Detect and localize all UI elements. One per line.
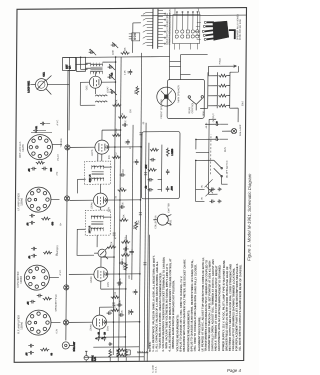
resistor network bottom-left of schematic	[116, 349, 130, 357]
svg-text:12BA6: 12BA6	[19, 197, 23, 205]
wire: B- bus	[144, 123, 146, 361]
wire: stage drops V1	[51, 307, 140, 338]
label V3 socket	[16, 193, 23, 211]
wire: output section	[200, 66, 239, 131]
wire: mid rail	[147, 143, 149, 362]
svg-text:C1A: C1A	[42, 72, 45, 77]
wire: stage drops V2	[49, 257, 140, 290]
svg-text:1 MEG: 1 MEG	[172, 148, 174, 155]
jack J1 box	[63, 57, 76, 70]
capacitor C20 electrolytic	[101, 331, 107, 341]
capacitor group under socket S4	[29, 161, 53, 172]
svg-text:LOOP ANT.: LOOP ANT.	[27, 81, 30, 93]
svg-text:Figure 1. Model M-1961, Sch: Figure 1. Model M-1961, Schematic Diagra…	[246, 173, 252, 261]
transistor jack labels	[155, 203, 172, 229]
wire: AVC bus	[113, 57, 115, 355]
svg-text:6.3V: 6.3V	[56, 328, 58, 333]
svg-text:12BA6: 12BA6	[19, 321, 23, 329]
svg-text:BALLAST: BALLAST	[73, 341, 76, 351]
svg-text:ADJUSTMENTS UNTIL NO FURTHER I: ADJUSTMENTS UNTIL NO FURTHER IMPROVEMENT…	[217, 264, 222, 351]
svg-text:50L6: 50L6	[242, 100, 244, 106]
terminal strip TS1	[129, 33, 140, 41]
wire: heater rail	[66, 70, 76, 340]
jack J2	[153, 214, 171, 225]
tube V1	[92, 315, 106, 329]
resistor R6	[112, 152, 121, 159]
label power area values	[201, 58, 221, 201]
label heater rail	[55, 153, 59, 333]
svg-text:BASE: BASE	[169, 219, 172, 225]
resistor R16	[134, 221, 138, 230]
capacitor C11	[130, 249, 134, 255]
speaker LS2 jack	[188, 96, 204, 111]
svg-text:DIAL LAMP: DIAL LAMP	[239, 124, 242, 136]
svg-text:15K: 15K	[125, 47, 127, 51]
wire: screen bus	[124, 235, 127, 355]
transformer T1 1st IF	[85, 210, 110, 235]
svg-text:TO GRID: TO GRID	[61, 138, 63, 148]
resistor R18 ballast on rail	[62, 341, 76, 351]
svg-text:10K: 10K	[123, 214, 125, 218]
wire: stage drops V3	[51, 184, 141, 211]
svg-text:12BA6: 12BA6	[89, 324, 92, 332]
switch SW3 linkage	[204, 134, 213, 196]
label switch S1	[166, 9, 172, 45]
capacitor C30 electrolytic	[214, 136, 220, 141]
resistor R15	[123, 262, 127, 271]
capacitor C9	[122, 120, 128, 127]
label converter	[106, 86, 109, 93]
svg-text:U.S.A.: U.S.A.	[155, 366, 158, 373]
capacitor C10	[125, 139, 129, 145]
wire: switch rail	[133, 15, 246, 53]
svg-text:FIELD: FIELD	[220, 58, 222, 65]
svg-text:150V: 150V	[203, 111, 205, 117]
wire: oscillator connections	[80, 57, 115, 105]
wire: power rail	[196, 119, 219, 194]
label V4 socket	[18, 141, 25, 158]
wire: speaker plug leads	[84, 347, 148, 357]
capacitor ticks on buses	[112, 133, 147, 305]
svg-text:C-1049: C-1049	[153, 364, 155, 372]
label bus B	[60, 222, 62, 225]
plug P2 ac plug	[84, 351, 97, 362]
label AVC2	[56, 119, 59, 126]
svg-text:12AT6: 12AT6	[21, 144, 25, 152]
capacitor C7	[119, 202, 125, 209]
capacitor group under socket S3	[27, 214, 54, 226]
label grid	[61, 138, 63, 148]
capacitor C12	[123, 245, 129, 251]
svg-text:OSC. GRID TO CHASSIS 47,000 OH: OSC. GRID TO CHASSIS 47,000 OHMS WITH GA…	[193, 264, 198, 351]
capacitor group grid V4	[31, 122, 52, 133]
capacitor C31 electrolytic	[214, 121, 220, 126]
wire: cathode bus	[132, 125, 133, 280]
svg-text:250V: 250V	[108, 206, 110, 212]
label output	[213, 100, 244, 122]
label tube V2	[91, 276, 93, 284]
svg-text:Page 4: Page 4	[227, 368, 241, 373]
svg-text:40-20: 40-20	[206, 122, 208, 128]
tube V5 oscillator	[89, 76, 101, 88]
capacitor C15	[134, 159, 138, 165]
svg-text:90V: 90V	[109, 155, 111, 159]
resistor R7	[112, 128, 121, 137]
svg-text:I.F.: I.F.	[69, 65, 72, 69]
label speaker	[160, 85, 194, 119]
svg-text:22K: 22K	[129, 274, 131, 278]
svg-text:PILOT: PILOT	[58, 153, 60, 160]
label values row under tubes	[107, 49, 145, 331]
label dial lamp	[239, 124, 242, 136]
svg-text:OSC.: OSC.	[86, 84, 88, 90]
resistor R13	[121, 249, 130, 256]
coil L2 oscillator	[90, 63, 102, 75]
svg-text:100V: 100V	[108, 281, 110, 287]
svg-text:12SA7: 12SA7	[106, 86, 109, 93]
svg-text:FRONT SPEAKER: FRONT SPEAKER	[160, 99, 163, 119]
wire: ground bus	[139, 53, 141, 361]
capacitor C19 electrolytic	[95, 331, 101, 341]
svg-text:12BE6: 12BE6	[91, 276, 93, 284]
wire: B+ bus	[119, 57, 121, 355]
capacitor C4	[119, 310, 125, 317]
resistor R1	[111, 304, 120, 311]
wire: speaker feed	[150, 13, 181, 80]
ground G3	[108, 342, 112, 346]
svg-text:MAIN SPEAKER: MAIN SPEAKER	[177, 85, 180, 103]
tube V2	[94, 267, 108, 281]
svg-text:100K: 100K	[123, 264, 125, 270]
label V1 socket	[16, 315, 23, 334]
capacitor C13	[129, 309, 133, 315]
capacitor group under socket S2	[29, 247, 52, 259]
caption	[246, 173, 252, 261]
capacitor C32 line filter	[209, 199, 215, 203]
capacitor C14	[133, 289, 137, 295]
label V2 socket	[16, 271, 23, 287]
speaker box	[167, 79, 204, 118]
lamp I5 pilot	[231, 128, 236, 133]
speaker LS1	[157, 87, 176, 106]
svg-text:220K: 220K	[113, 49, 115, 55]
svg-text:OUTPUT: OUTPUT	[213, 113, 215, 123]
socket P1 speaker plug detail	[195, 21, 235, 41]
label speaker field	[55, 294, 58, 312]
wire: stage drops V4	[52, 130, 141, 162]
svg-text:REAR: REAR	[188, 107, 191, 114]
wire: audio bus	[148, 235, 151, 349]
capacitor C16	[128, 69, 132, 75]
wire: IF couplings	[77, 153, 112, 255]
wire: rectifier plate	[169, 54, 207, 79]
svg-text:12BA6: 12BA6	[90, 202, 93, 210]
svg-text:470K: 470K	[116, 128, 118, 134]
lamp I1 on heater rail	[63, 320, 68, 325]
capacitor C21	[107, 309, 113, 315]
svg-text:SPEAKER FIELD: SPEAKER FIELD	[55, 294, 58, 312]
resistor R5	[118, 186, 127, 191]
svg-text:2ND I.F.: 2ND I.F.	[90, 174, 92, 182]
svg-text:12AT6: 12AT6	[91, 149, 94, 156]
svg-text:47K: 47K	[116, 99, 118, 103]
lamp I3 on heater rail	[64, 196, 69, 201]
resistor R17	[135, 86, 139, 95]
capacitor C3 padder	[111, 42, 119, 48]
capacitor C6	[119, 258, 125, 265]
svg-text:ON-OFF SWITCH: ON-OFF SWITCH	[227, 160, 229, 178]
wire: antenna feed	[47, 57, 151, 131]
tube V1 socket view	[26, 310, 51, 335]
tube V3 socket view	[26, 187, 51, 212]
svg-text:FROM WIRING SIDE: FROM WIRING SIDE	[240, 19, 242, 40]
capacitor group under socket S1	[26, 344, 53, 356]
transformer T2 2nd IF	[85, 161, 111, 184]
potentiometer R12 volume	[94, 247, 108, 259]
label bus A	[59, 269, 62, 276]
svg-text:56K: 56K	[134, 224, 136, 228]
svg-text:A.C.: A.C.	[94, 357, 97, 362]
svg-text:MEASURED WITH 20,000 OHM PER V: MEASURED WITH 20,000 OHM PER VOLT METER.…	[182, 259, 187, 352]
box tone filter	[141, 132, 180, 199]
label tube V4	[91, 149, 94, 156]
svg-text:1ST I.F.: 1ST I.F.	[89, 225, 91, 233]
svg-text:CONTROL: CONTROL	[192, 101, 194, 113]
label tube V1	[89, 324, 92, 332]
svg-text:35Z5: 35Z5	[225, 146, 227, 152]
svg-text:22K: 22K	[111, 241, 113, 245]
switch S1 wafer B	[173, 8, 200, 49]
svg-text:HEATERS: HEATERS	[56, 245, 59, 256]
tube V4 socket view	[27, 135, 52, 160]
tube V4	[95, 140, 109, 154]
resistor R14	[121, 237, 130, 244]
jack J2 box	[77, 57, 91, 71]
resistor R3	[107, 241, 116, 248]
capacitor C33 line filter	[210, 187, 216, 191]
switch S1 wafer A	[143, 9, 166, 49]
coil L3 antenna	[95, 95, 107, 102]
svg-text:250V: 250V	[107, 325, 109, 331]
capacitor C17 trimmer	[107, 72, 115, 80]
notes text block	[148, 254, 243, 351]
svg-text:COLLECTOR: COLLECTOR	[155, 215, 157, 229]
svg-text:2.2K: 2.2K	[124, 70, 126, 75]
capacitor C8	[120, 168, 126, 176]
label B minus	[56, 253, 58, 255]
svg-text:MINIMUM. BAND SWITCH IN BROADC: MINIMUM. BAND SWITCH IN BROADCAST POSITI…	[171, 280, 176, 349]
svg-text:47K: 47K	[146, 164, 148, 168]
resistor R10	[121, 47, 130, 54]
capacitor C2 trimmer	[89, 49, 97, 55]
label switch	[227, 160, 229, 178]
resistor row left edge	[109, 349, 128, 361]
label print code	[153, 364, 158, 372]
ground G2	[218, 187, 222, 191]
capacitor group under socket S2	[28, 294, 52, 305]
svg-text:ALL WAVE SWITCH CONTACTS SHOWN: ALL WAVE SWITCH CONTACTS SHOWN FROM REAR…	[238, 264, 243, 351]
lamp I4 on heater rail	[65, 145, 70, 150]
capacitor C5	[117, 278, 123, 285]
wire: power section	[195, 124, 228, 201]
svg-text:12BE6: 12BE6	[19, 275, 23, 283]
tube V2 socket view	[24, 265, 49, 290]
svg-text:A.V.C.: A.V.C.	[59, 269, 62, 276]
resistor R9	[112, 99, 121, 106]
resistor R2	[111, 291, 120, 298]
switch SW2 on-off	[214, 160, 223, 177]
resistor R8	[118, 112, 127, 118]
antenna loop	[27, 72, 51, 95]
svg-text:3.3K: 3.3K	[138, 220, 140, 225]
svg-text:EMITTER: EMITTER	[168, 203, 170, 213]
resistor R4	[119, 214, 128, 221]
label 270	[57, 171, 59, 175]
ground G1	[217, 199, 221, 203]
border frame	[14, 8, 246, 363]
capacitor C1 trimmer	[109, 89, 117, 95]
capacitor C18 trimmer	[108, 64, 116, 70]
label socket P1	[236, 13, 242, 40]
component cluster in tone box	[146, 145, 174, 192]
label tube V3	[90, 202, 93, 210]
transformer T3 output and field	[208, 65, 237, 108]
svg-text:A.V.C.: A.V.C.	[56, 119, 59, 126]
label rectifier	[225, 146, 227, 152]
lamp I2 on heater rail	[64, 285, 69, 290]
label tube V5	[86, 84, 88, 90]
tube V3	[93, 193, 107, 207]
capacitor C22	[117, 300, 123, 307]
